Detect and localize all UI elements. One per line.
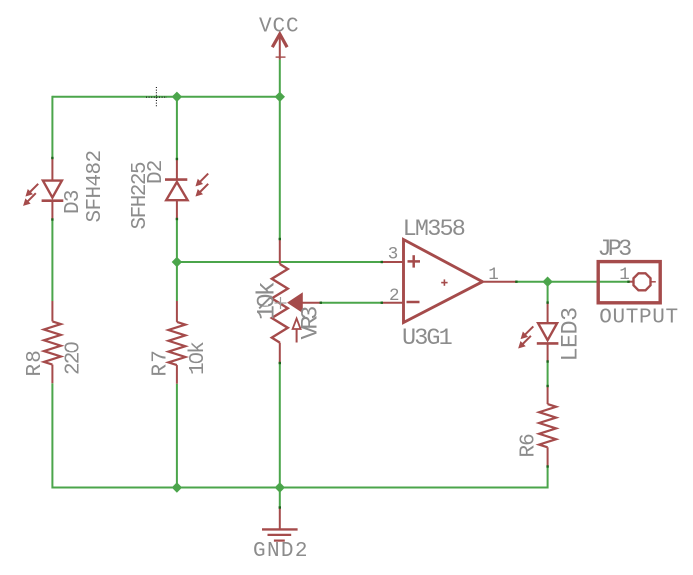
resistor R6 — [539, 386, 556, 467]
svg-text:220: 220 — [63, 342, 86, 375]
svg-text:R8: R8 — [24, 349, 47, 376]
pin connection dots — [51, 157, 630, 509]
svg-text:10k: 10k — [187, 342, 210, 375]
wire opamp pin2 net — [321, 302, 382, 304]
wire VCC stem — [279, 60, 281, 97]
svg-text:1: 1 — [488, 265, 499, 285]
svg-text:LED3: LED3 — [558, 307, 585, 361]
op-amp pin 1 lead — [484, 281, 516, 283]
power VCC — [272, 34, 287, 60]
wire col2 mid — [176, 219, 178, 301]
resistor R7 — [168, 301, 185, 384]
junction top rail at col2 — [172, 92, 182, 102]
svg-text:LM358: LM358 — [403, 216, 465, 243]
D2 receive arrow 1 — [196, 174, 208, 186]
svg-text:SFH482: SFH482 — [84, 150, 107, 222]
D2 receive arrow 2 — [196, 184, 208, 196]
svg-text:R7: R7 — [150, 349, 173, 376]
VR3 origin cross — [275, 297, 287, 309]
svg-text:GND2: GND2 — [253, 540, 309, 563]
op-amp minus input mark — [407, 301, 420, 304]
svg-text:SFH225: SFH225 — [129, 162, 152, 230]
junction output net — [542, 277, 552, 287]
op-amp plus input mark — [408, 255, 421, 267]
JP3 pin octagon — [634, 273, 656, 290]
wire mid lower — [279, 363, 281, 488]
LED3 emit arrow 2 — [519, 336, 531, 348]
wire left upper — [51, 96, 53, 158]
photodiode D2 — [165, 159, 188, 219]
wire bottom rail — [52, 487, 547, 489]
JP3 pin 1 stub — [629, 281, 634, 283]
crosshair origin cross — [146, 87, 167, 108]
D3 emit arrow 1 — [26, 184, 38, 196]
connector JP3 — [598, 262, 660, 303]
svg-text:VCC: VCC — [259, 16, 300, 39]
VR3 wiper — [288, 293, 321, 312]
wire col2 upper — [176, 97, 178, 159]
junction bottom rail at col2 — [172, 482, 182, 492]
op-amp U1 triangle — [404, 240, 483, 323]
svg-text:2: 2 — [389, 286, 400, 306]
svg-text:R6: R6 — [518, 434, 541, 458]
wire r6 bottom — [547, 467, 549, 489]
op-amp pin 2 lead — [382, 302, 403, 304]
svg-text:VR3: VR3 — [298, 307, 325, 340]
wire right upper — [547, 282, 549, 303]
junction pin3 net at col2 — [172, 257, 182, 267]
svg-text:D3: D3 — [62, 190, 85, 214]
junction top rail at VCC — [275, 92, 285, 102]
wire led3-r6 — [547, 362, 549, 387]
VR3 adjust arrow — [293, 319, 301, 343]
op-amp pin 3 lead — [382, 261, 403, 263]
value 10k VR3 zero slash — [259, 296, 271, 308]
svg-text:OUTPUT: OUTPUT — [599, 307, 679, 330]
op-amp origin cross — [441, 279, 447, 285]
ground GND2 — [262, 508, 298, 541]
wire gnd stem — [279, 488, 281, 508]
svg-text:U3G1: U3G1 — [402, 325, 452, 352]
D3 emit arrow 2 — [24, 193, 36, 205]
diode D3 — [42, 158, 64, 220]
LED3 emit arrow 1 — [521, 326, 533, 338]
potentiometer VR3 — [272, 239, 288, 363]
led LED3 — [537, 303, 559, 362]
junction bottom rail at gnd — [275, 482, 285, 492]
svg-text:3: 3 — [388, 245, 399, 265]
wire left lower — [51, 383, 53, 488]
wire opamp pin3 net — [177, 261, 382, 263]
svg-text:JP3: JP3 — [598, 236, 632, 263]
resistor R8 — [44, 301, 61, 383]
wire col2 lower — [176, 384, 178, 488]
wire left mid — [51, 220, 53, 302]
wire output net — [516, 281, 628, 283]
wire mid upper — [279, 97, 281, 239]
wire top rail — [52, 96, 279, 98]
